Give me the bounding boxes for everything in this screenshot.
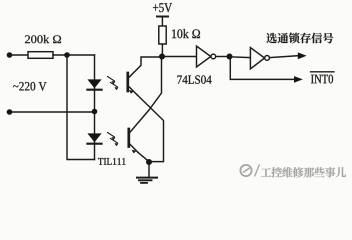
arrowhead: INT0 [294,76,303,83]
wire: U1A output to node D [216,56,230,58]
label INT0 [311,75,333,84]
wire: node C down through crossover to Q2 collector [130,58,162,133]
wire: R2 to node C [161,44,163,57]
wire: U1B output to strobe arrow [270,56,299,58]
Q1 emitter with arrow [129,86,138,95]
ground node dot [146,159,152,165]
node C junction dot [159,54,165,60]
watermark text [261,167,346,177]
wire: node D to inverter U1B input [230,56,251,59]
wire: LED column vertical [94,55,96,160]
terminal dot: AC line top [7,52,13,58]
label: strobe latch signal (Chinese) [266,33,333,44]
LED D1 triangle [87,79,101,88]
LED D1 cathode bar [87,89,101,91]
wire: bottom terminal to node B [11,111,95,113]
Q1 collector path up to node C [129,57,161,78]
wire: top terminal to resistor R1 [11,54,28,56]
label R1 value 200k Ohm [25,35,61,43]
label TIL111 [98,158,125,165]
ground symbol [137,162,157,183]
wire: R1 to node A and over to LED column [53,54,95,56]
label R2 value 10k Ohm [172,29,200,38]
light arrows to Q2 [108,133,119,147]
inverter U1B triangle [250,48,264,69]
resistor R1 200k [28,52,53,59]
phototransistor Q2 base bar [127,129,130,147]
power rail bar +5V [157,16,168,18]
wire: node A down and along bottom to LED2 cathode [67,55,95,160]
phototransistor Q1 base bar [126,73,129,91]
node D junction dot [227,54,233,60]
arrowhead: strobe output [298,52,307,59]
wire: node D down and right to INT0 arrow [230,57,294,80]
inverter U1B bubble [265,56,270,61]
inverter U1A bubble [211,54,216,59]
node A junction dot [64,52,70,58]
LED D2 triangle [87,133,101,142]
Q2 emitter with arrow [130,144,139,153]
wire: node C to inverter U1A input [162,56,197,58]
INT0 overbar [311,71,335,73]
node B junction dot between LED1 and LED2 [92,109,98,115]
LED D2 cathode bar [87,143,101,145]
label +5V [153,3,172,12]
label 74LS04 [177,75,211,83]
wire: Q2 emitter to ground node [138,152,149,161]
resistor R2 10k [159,26,166,44]
label AC source ~220 V [13,82,47,91]
inverter U1A triangle [197,46,211,67]
terminal dot: AC line bottom [7,109,13,115]
light arrows to Q1 [108,77,119,91]
wire: Q1 emitter through crossover down to ground node [137,95,163,162]
wire: +5V bar to resistor R2 [161,17,163,27]
watermark icon [240,165,259,177]
